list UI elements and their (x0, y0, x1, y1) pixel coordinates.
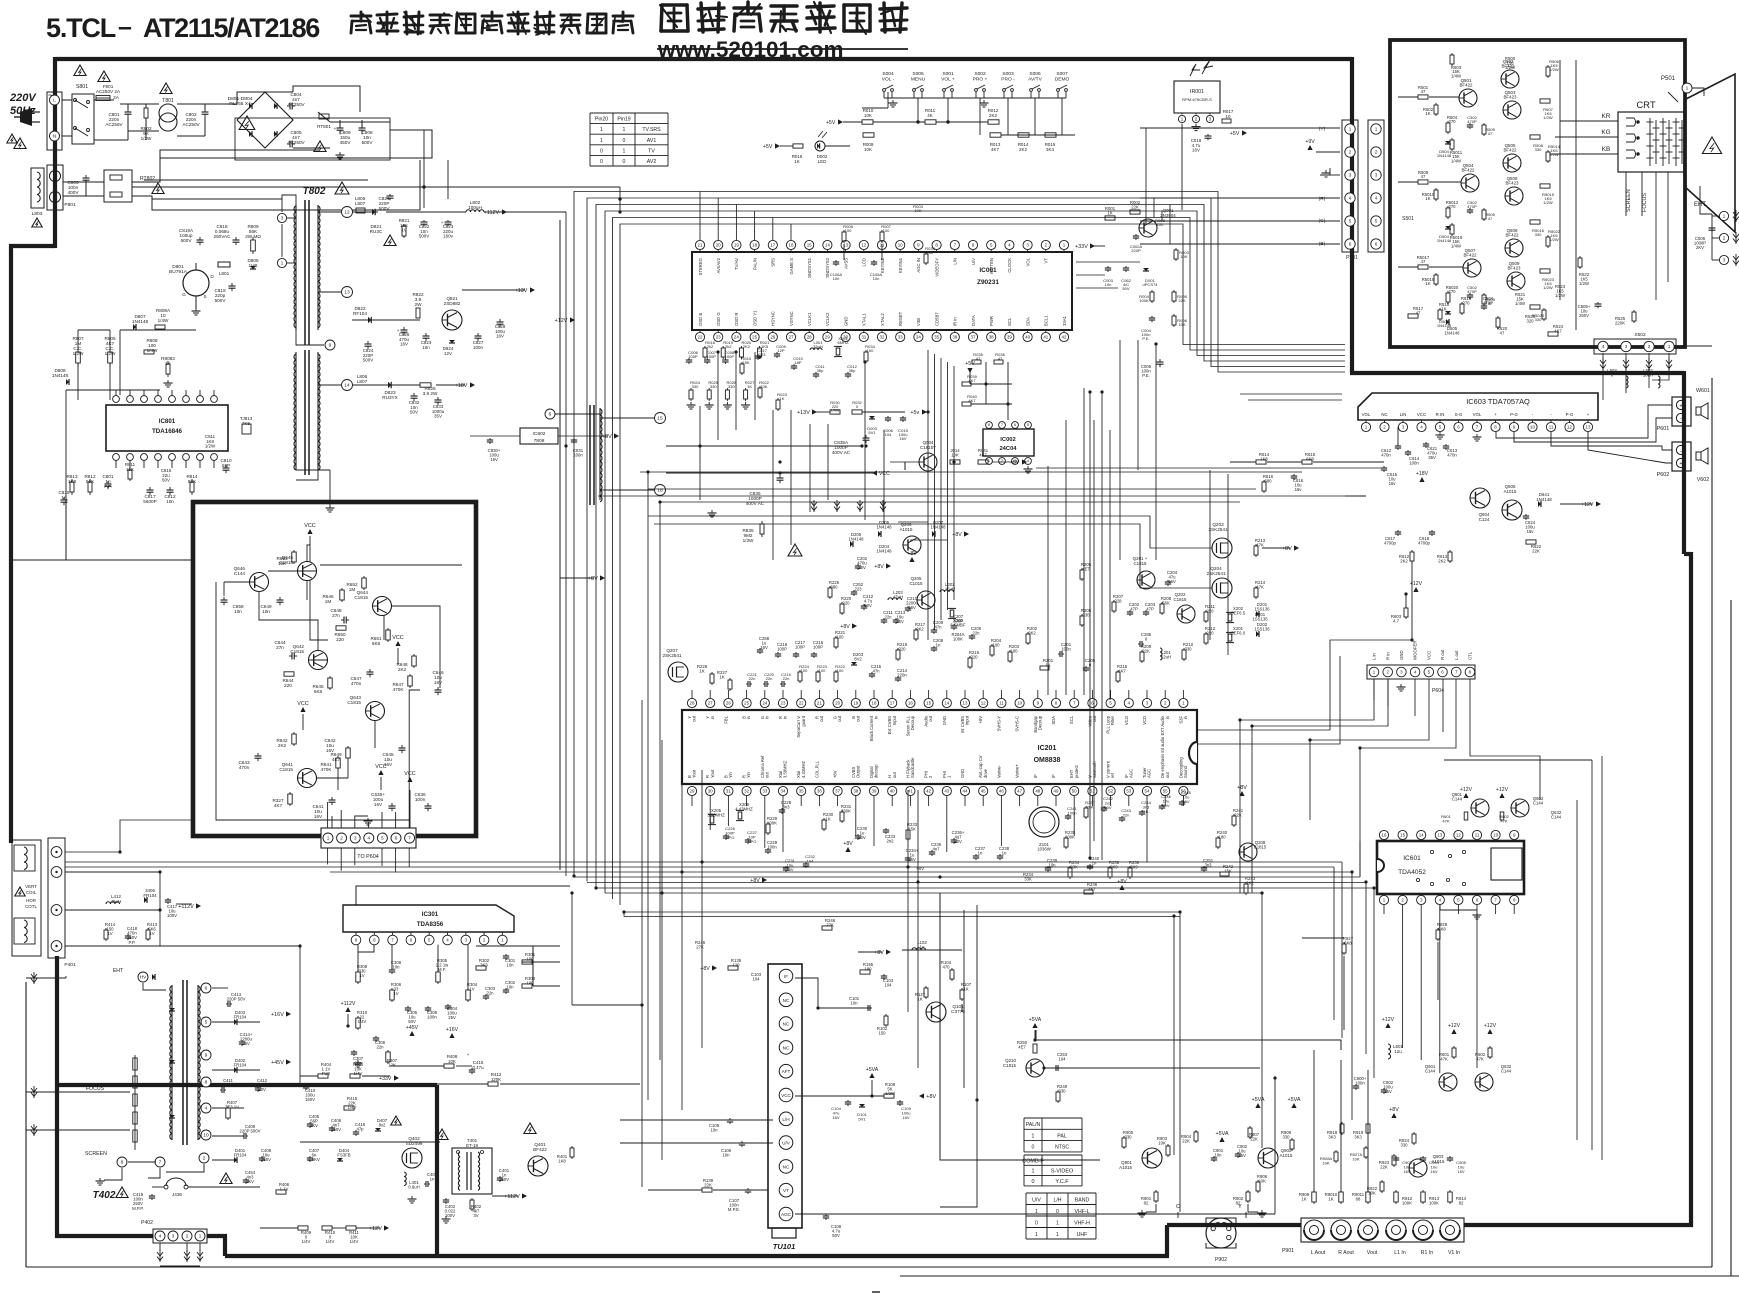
svg-text:27: 27 (708, 700, 713, 705)
svg-text:C1815: C1815 (1254, 845, 1267, 850)
svg-text:100n: 100n (1067, 810, 1076, 815)
svg-text:out: out (892, 771, 897, 778)
svg-text:VCO: VCO (1124, 715, 1129, 725)
svg-text:P604: P604 (1432, 688, 1444, 694)
svg-text:1/4W: 1/4W (1451, 158, 1461, 163)
svg-text:NC: NC (1381, 412, 1387, 417)
fuse F801 (96, 96, 110, 101)
svg-text:EHT: EHT (113, 968, 124, 974)
svg-text:1N4148: 1N4148 (1445, 331, 1461, 336)
svg-text:L/N: L/N (953, 258, 958, 265)
svg-text:R out: R out (1440, 649, 1445, 660)
svg-text:L807: L807 (355, 201, 366, 206)
svg-text:PAL/N: PAL/N (752, 258, 757, 270)
svg-text:14: 14 (944, 700, 949, 705)
svg-text:3.58MHZ: 3.58MHZ (783, 761, 788, 778)
svg-text:1/2W: 1/2W (205, 444, 216, 449)
svg-text:6: 6 (1014, 423, 1016, 427)
svg-text:C144: C144 (1533, 801, 1544, 806)
svg-text:ref: ref (1110, 772, 1115, 778)
svg-text:22K: 22K (1234, 813, 1242, 818)
svg-text:50V: 50V (410, 410, 418, 415)
svg-text:10n: 10n (422, 345, 430, 350)
svg-text:P-G: P-G (1566, 412, 1574, 417)
svg-text:HSYNC: HSYNC (771, 311, 776, 326)
svg-text:5: 5 (381, 836, 384, 841)
svg-text:+112V: +112V (504, 1194, 520, 1200)
svg-text:+45V: +45V (406, 1025, 419, 1031)
svg-text:SCREEN: SCREEN (1626, 189, 1632, 212)
svg-text:1K: 1K (1301, 1197, 1306, 1202)
svg-text:47K: 47K (1256, 543, 1264, 548)
svg-text:50V: 50V (408, 1019, 416, 1024)
svg-text:5: 5 (1375, 219, 1378, 224)
svg-text:1N4148: 1N4148 (849, 537, 865, 542)
connector S502 (1594, 339, 1676, 354)
svg-text:1: 1 (1032, 1133, 1035, 1139)
svg-text:100n: 100n (1355, 1081, 1365, 1086)
svg-text:22n: 22n (972, 631, 980, 636)
svg-text:44: 44 (963, 788, 968, 793)
svg-text:Varive+: Varive+ (1015, 764, 1020, 778)
svg-text:1: 1 (1035, 1232, 1038, 1238)
svg-text:0: 0 (600, 148, 603, 154)
svg-text:150: 150 (878, 1031, 886, 1036)
svg-text:HOR: HOR (26, 898, 36, 903)
watermark 家电维修资料网 (662, 3, 687, 7)
svg-text:22n: 22n (749, 676, 756, 681)
svg-text:M.F.: M.F. (438, 967, 446, 972)
svg-text:41: 41 (908, 788, 913, 793)
svg-text:3: 3 (1209, 117, 1212, 123)
svg-text:C1015: C1015 (909, 581, 923, 586)
svg-text:26: 26 (726, 700, 731, 705)
svg-text:RF104: RF104 (353, 311, 367, 316)
svg-text:3K3: 3K3 (1046, 147, 1054, 152)
svg-text:COIL: COIL (26, 890, 37, 895)
svg-text:36: 36 (817, 788, 822, 793)
svg-text:RPM-676CBR-S: RPM-676CBR-S (1182, 97, 1212, 102)
svg-text:NTSC: NTSC (1055, 1145, 1069, 1151)
svg-text:+5VA: +5VA (1215, 1131, 1228, 1137)
svg-text:A1015: A1015 (1280, 1153, 1293, 1158)
svg-text:S002: S002 (974, 71, 986, 77)
svg-text:54: 54 (1145, 788, 1150, 793)
svg-text:37: 37 (835, 788, 840, 793)
svg-text:1: 1 (1723, 214, 1726, 220)
svg-text:out: out (1165, 771, 1170, 778)
svg-text:104: 104 (807, 858, 815, 863)
svg-text:500V: 500V (379, 206, 391, 211)
svg-text:IF: IF (1051, 774, 1056, 778)
svg-text:CLOCK: CLOCK (1007, 258, 1012, 273)
svg-text:1n: 1n (1002, 851, 1007, 856)
svg-text:KG: KG (1601, 129, 1610, 136)
svg-text:1/4W: 1/4W (147, 348, 158, 353)
svg-text:NC: NC (783, 1164, 790, 1169)
svg-text:C1815: C1815 (347, 700, 361, 705)
ceramic filter Z101 (1029, 807, 1059, 837)
svg-text:1N4148: 1N4148 (1536, 497, 1552, 502)
svg-text:26: 26 (770, 334, 775, 339)
svg-text:KR: KR (1602, 113, 1611, 120)
svg-text:500V: 500V (215, 298, 227, 303)
svg-text:PWR: PWR (989, 316, 994, 326)
svg-text:38: 38 (989, 334, 994, 339)
svg-text:10uH: 10uH (1643, 373, 1653, 378)
IC601 TDA4052 (1377, 841, 1524, 894)
svg-text:Sandcastle: Sandcastle (910, 757, 915, 778)
svg-text:0: 0 (623, 159, 626, 165)
svg-text:+5VA: +5VA (866, 1067, 879, 1073)
svg-text:IC601: IC601 (1403, 855, 1421, 862)
svg-text:3n3: 3n3 (782, 805, 790, 810)
svg-text:FR104: FR104 (143, 893, 157, 898)
svg-text:100P: 100P (706, 354, 716, 359)
svg-text:M.P.E.: M.P.E. (728, 1207, 740, 1212)
svg-text:3.9 2W: 3.9 2W (423, 391, 438, 396)
svg-text:+: + (441, 220, 444, 225)
svg-text:1: 1 (1031, 1169, 1034, 1175)
svg-text:1/2W: 1/2W (743, 538, 754, 543)
svg-text:L: L (53, 98, 56, 104)
svg-text:TV: TV (648, 148, 655, 154)
svg-text:1K: 1K (1328, 1197, 1333, 1202)
svg-text:8: 8 (121, 1160, 124, 1166)
svg-text:100K: 100K (1065, 835, 1075, 840)
svg-text:1/2W: 1/2W (1543, 285, 1553, 290)
svg-text:4700p: 4700p (1418, 541, 1430, 546)
svg-text:19: 19 (734, 242, 739, 247)
svg-text:10n: 10n (166, 499, 174, 504)
transistor Q101 C3779 (926, 1002, 946, 1022)
svg-text:1N4148: 1N4148 (877, 549, 893, 554)
svg-text:48: 48 (1035, 788, 1040, 793)
svg-text:500V: 500V (419, 234, 429, 239)
svg-text:5: 5 (1349, 219, 1352, 224)
svg-text:2K2: 2K2 (1019, 147, 1027, 152)
svg-text:TO P604: TO P604 (357, 854, 378, 860)
svg-text:+8V: +8V (1237, 785, 1247, 791)
svg-text:35V: 35V (434, 414, 442, 419)
svg-text:330: 330 (710, 384, 718, 389)
svg-text:16V: 16V (1192, 148, 1200, 153)
svg-text:SCL: SCL (1069, 715, 1074, 724)
bus wires top loops (574, 192, 1345, 877)
svg-text:16V: 16V (384, 762, 393, 767)
svg-text:NC: NC (783, 998, 790, 1003)
svg-text:2K2: 2K2 (1438, 559, 1446, 564)
svg-text:470P: 470P (1467, 204, 1477, 209)
svg-text:7808: 7808 (534, 438, 545, 444)
svg-text:3: 3 (172, 1234, 175, 1239)
svg-text:P401: P401 (64, 962, 76, 968)
svg-text:U/V: U/V (1032, 1197, 1041, 1203)
svg-text:1/2W: 1/2W (1549, 237, 1559, 242)
svg-text:VCC: VCC (1417, 412, 1426, 417)
svg-text:19: 19 (853, 700, 858, 705)
svg-text:AV1: AV1 (647, 138, 657, 144)
svg-text:+8V: +8V (1389, 1107, 1399, 1113)
svg-text:3E3 1V: 3E3 1V (225, 1105, 239, 1110)
svg-text:470n: 470n (1381, 453, 1391, 458)
svg-text:10: 10 (1493, 832, 1498, 837)
svg-text:+18V: +18V (455, 383, 468, 389)
connector P801 L/N (47, 92, 62, 150)
svg-text:AVI/AV2: AVI/AV2 (716, 257, 721, 273)
svg-text:+112V: +112V (484, 210, 500, 216)
svg-text:56K: 56K (1162, 601, 1170, 606)
line filter T801 (159, 104, 177, 122)
svg-text:3: 3 (1349, 173, 1352, 178)
transistor Q208 C1815 (1239, 843, 1257, 861)
svg-text:VCLK1: VCLK1 (807, 312, 812, 326)
svg-text:1036W: 1036W (1037, 847, 1050, 852)
svg-text:3: 3 (1723, 258, 1726, 264)
svg-text:13: 13 (344, 290, 350, 296)
svg-text:4: 4 (1602, 344, 1605, 349)
svg-text:out: out (1092, 715, 1097, 722)
svg-text:+12V: +12V (1382, 1017, 1395, 1023)
svg-text:330: 330 (1535, 232, 1543, 237)
svg-text:FOCUS: FOCUS (1642, 193, 1648, 212)
svg-text:3K3: 3K3 (1354, 1135, 1362, 1140)
svg-text:out: out (928, 715, 933, 722)
svg-text:T802: T802 (303, 186, 326, 197)
svg-text:AC256V: AC256V (105, 122, 123, 127)
svg-text:Yin: Yin (728, 771, 733, 778)
svg-text:IC002: IC002 (1000, 437, 1015, 443)
svg-text:18: 18 (752, 242, 757, 247)
svg-text:RESET: RESET (898, 311, 903, 326)
svg-text:-: - (1680, 449, 1682, 455)
svg-text:2W: 2W (415, 302, 423, 307)
svg-text:10n: 10n (1105, 282, 1112, 287)
svg-text:30: 30 (708, 788, 713, 793)
svg-text:13: 13 (1437, 832, 1442, 837)
svg-text:decoup: decoup (874, 764, 879, 778)
svg-text:1: 1 (623, 148, 626, 154)
svg-text:V3B: V3B (916, 318, 921, 326)
svg-text:42: 42 (1062, 334, 1067, 339)
svg-text:470n: 470n (239, 765, 250, 770)
svg-text:+13V: +13V (515, 288, 528, 294)
svg-text:7K5: 7K5 (242, 421, 250, 426)
svg-text:2n2: 2n2 (886, 839, 894, 844)
svg-text:15: 15 (807, 242, 812, 247)
svg-text:uPCS74: uPCS74 (1142, 282, 1158, 287)
svg-text:100n: 100n (573, 453, 583, 458)
svg-text:L Aout: L Aout (1311, 1250, 1326, 1256)
svg-text:160v: 160v (443, 234, 453, 239)
svg-text:47P: 47P (1130, 607, 1138, 612)
svg-text:+5v: +5v (910, 410, 919, 416)
svg-text:120: 120 (732, 963, 740, 968)
svg-text:1N4148: 1N4148 (132, 319, 149, 324)
svg-text:2K2: 2K2 (743, 344, 751, 349)
svg-text:C144: C144 (1452, 797, 1463, 802)
svg-text:–: – (118, 13, 132, 41)
svg-text:1: 1 (1035, 1209, 1038, 1215)
svg-text:5V1: 5V1 (868, 430, 876, 435)
svg-text:T402: T402 (93, 1190, 116, 1201)
svg-text:50V: 50V (162, 478, 170, 483)
svg-text:8: 8 (988, 423, 990, 427)
svg-text:16V: 16V (832, 1115, 840, 1120)
svg-text:1/2W: 1/2W (1549, 152, 1559, 157)
svg-text:1K8: 1K8 (1260, 457, 1268, 462)
svg-text:4700p: 4700p (1384, 541, 1396, 546)
svg-text:XTAL2: XTAL2 (880, 313, 885, 326)
svg-text:TV/AV: TV/AV (734, 258, 739, 270)
svg-text:AGC: AGC (781, 1212, 792, 1217)
svg-text:100uH: 100uH (468, 205, 482, 210)
svg-text:1SS136: 1SS136 (1254, 627, 1270, 632)
table COMB-F (1024, 1154, 1082, 1156)
svg-text:6: 6 (549, 412, 552, 418)
transistor Q201 C1815 (1137, 571, 1155, 589)
svg-text:FBL: FBL (723, 715, 728, 723)
svg-text:52: 52 (1108, 788, 1113, 793)
svg-text:12P: 12P (777, 348, 785, 353)
svg-text:2: 2 (186, 1234, 189, 1239)
svg-text:Z90231: Z90231 (977, 279, 999, 286)
svg-text:13: 13 (1586, 424, 1591, 429)
svg-text:VOL -: VOL - (882, 76, 895, 82)
svg-text:L/H: L/H (1053, 1197, 1061, 1203)
svg-text:out: out (764, 771, 769, 778)
svg-text:18P: 18P (794, 360, 802, 365)
svg-text:AGC: AGC (1128, 769, 1133, 778)
svg-text:4K7: 4K7 (991, 147, 999, 152)
svg-text:DEMO: DEMO (1055, 76, 1070, 82)
svg-text:SNDSYS1: SNDSYS1 (807, 257, 812, 277)
svg-text:AV/TV: AV/TV (1028, 76, 1042, 82)
svg-text:D801: D801 (172, 264, 184, 270)
connector P801 (47, 165, 63, 210)
svg-text:L1 In: L1 In (1394, 1250, 1406, 1256)
svg-text:UHF: UHF (1077, 1232, 1088, 1238)
svg-text:AV2: AV2 (647, 159, 657, 165)
svg-text:21: 21 (817, 700, 822, 705)
svg-text:KEYIN1: KEYIN1 (898, 257, 903, 273)
svg-text:22K: 22K (1380, 1165, 1388, 1170)
svg-text:S: S (203, 294, 206, 299)
svg-text:+12V: +12V (1448, 1023, 1461, 1029)
svg-text:1: 1 (1349, 127, 1352, 132)
svg-text:IF: IF (784, 974, 788, 979)
svg-text:S007: S007 (1056, 71, 1068, 77)
svg-text:2SK2541: 2SK2541 (1206, 571, 1226, 576)
svg-text:47n: 47n (934, 625, 942, 630)
svg-text:220P 50V: 220P 50V (227, 997, 246, 1002)
svg-text:6K8: 6K8 (1344, 941, 1352, 946)
svg-text:1/4V: 1/4V (302, 1239, 311, 1244)
svg-text:1: 1 (327, 836, 330, 841)
svg-text:+5VA: +5VA (1287, 1097, 1300, 1103)
svg-text:IC201: IC201 (1038, 745, 1057, 752)
svg-text:100n: 100n (767, 845, 777, 850)
svg-text:10n: 10n (722, 1153, 730, 1158)
svg-text:GND: GND (843, 317, 848, 326)
svg-text:out: out (692, 715, 697, 722)
svg-text:22n: 22n (486, 991, 494, 996)
connector P602 + speaker V602 (1672, 442, 1691, 471)
svg-text:Decoup: Decoup (1037, 715, 1042, 730)
svg-text:+: + (1679, 404, 1682, 410)
svg-text:10K: 10K (914, 208, 922, 213)
svg-text:470n: 470n (351, 681, 362, 686)
svg-text:500V: 500V (181, 238, 193, 243)
svg-text:6K8: 6K8 (314, 689, 323, 694)
transistor Q001 2N3904 (1139, 219, 1157, 237)
svg-text:47: 47 (1421, 174, 1426, 179)
FET Q204 2SK2541 (1212, 578, 1232, 598)
bridge rectifier D801-D804 (237, 92, 293, 148)
svg-text:10K: 10K (1322, 1160, 1330, 1165)
transistor Q210 C1815 (1026, 1059, 1044, 1077)
svg-text:1/4V: 1/4V (350, 1239, 359, 1244)
svg-text:C144: C144 (1425, 1069, 1436, 1074)
svg-text:RU3YX: RU3YX (382, 395, 397, 400)
LED D002 (815, 141, 825, 151)
IC301 TDA8356 (343, 905, 514, 932)
svg-text:VCC: VCC (1426, 651, 1431, 660)
svg-text:10n: 10n (262, 609, 270, 614)
svg-text:220V: 220V (9, 92, 37, 104)
svg-text:1/2W: 1/2W (1543, 115, 1553, 120)
svg-text:R Aout: R Aout (1338, 1250, 1354, 1256)
svg-text:1/4W: 1/4W (830, 408, 839, 413)
svg-text:OSD B: OSD B (698, 313, 703, 326)
svg-text:6: 6 (1375, 242, 1378, 247)
svg-text:S001: S001 (942, 71, 954, 77)
svg-text:A1015: A1015 (1119, 1165, 1132, 1170)
svg-text:100: 100 (1157, 222, 1165, 227)
svg-text:10n: 10n (506, 985, 514, 990)
svg-text:BU791A: BU791A (169, 269, 188, 275)
svg-text:BF423: BF423 (1503, 94, 1517, 99)
svg-text:IC801: IC801 (159, 418, 176, 425)
svg-text:Y.C.F: Y.C.F (1055, 1179, 1069, 1185)
svg-text:1K: 1K (719, 675, 724, 680)
svg-text:1K: 1K (1425, 196, 1430, 201)
svg-text:32: 32 (744, 788, 749, 793)
svg-text:16v: 16v (1389, 481, 1397, 486)
connector P604 (1367, 665, 1475, 679)
svg-text:PAL: PAL (1057, 1133, 1067, 1139)
svg-text:10n: 10n (833, 276, 840, 281)
svg-text:VHF-L: VHF-L (1075, 1209, 1090, 1215)
svg-text:2KV: 2KV (1696, 245, 1704, 250)
svg-text:LED: LED (818, 159, 827, 164)
svg-text:De emphasis Int audio: De emphasis Int audio (1160, 736, 1165, 778)
svg-text:4E7: 4E7 (1018, 1045, 1026, 1050)
svg-text:20: 20 (716, 242, 721, 247)
svg-text:24C04: 24C04 (999, 446, 1017, 452)
svg-text:22K: 22K (1182, 1139, 1190, 1144)
svg-text:100K: 100K (953, 637, 963, 642)
svg-text:S-G: S-G (1455, 412, 1463, 417)
svg-text:+13V: +13V (797, 410, 810, 416)
svg-text:VOL: VOL (1473, 412, 1482, 417)
svg-text:GND: GND (960, 769, 965, 778)
svg-text:1/2W: 1/2W (1505, 65, 1515, 70)
svg-text:2: 2 (203, 1156, 206, 1162)
svg-text:1/2W: 1/2W (1579, 281, 1589, 286)
svg-text:24: 24 (762, 700, 767, 705)
svg-text:10: 10 (1530, 424, 1535, 429)
